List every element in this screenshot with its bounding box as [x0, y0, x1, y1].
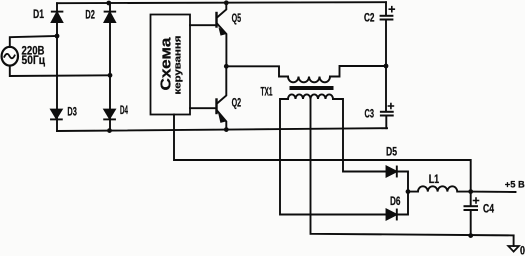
capacitor C3 [381, 66, 393, 128]
svg-text:Q2: Q2 [232, 96, 242, 110]
svg-text:D4: D4 [120, 103, 128, 117]
diode D6 [387, 210, 397, 220]
wire secondary center tap to ground line [311, 99, 514, 235]
node junction dot L1 output [468, 189, 473, 194]
label C4 [483, 204, 494, 216]
polarity plus C3 [388, 104, 393, 109]
wire left bridge branch [56, 3, 58, 131]
label D6 [390, 194, 401, 208]
diode D5 [387, 167, 397, 177]
label Q5 [232, 11, 242, 25]
node junction dot Q5 collector top rail [224, 0, 229, 5]
polarity plus C4 [474, 198, 479, 203]
inductor L1 [408, 186, 471, 191]
svg-text:C2: C2 [364, 13, 375, 25]
svg-text:D3: D3 [67, 104, 77, 118]
transformer TX1 secondary winding [288, 94, 333, 99]
wire top rail [57, 2, 386, 3]
transistor Q5 [217, 3, 227, 66]
wire output to +5 В [471, 191, 516, 193]
label D5 [386, 145, 397, 159]
svg-text:TX1: TX1 [261, 85, 273, 99]
node junction dot AC bottom / bridge right [108, 73, 113, 78]
svg-text:0: 0 [520, 246, 525, 256]
svg-text:D1: D1 [33, 7, 44, 21]
label D3 [67, 104, 77, 118]
svg-text:D2: D2 [85, 8, 95, 22]
svg-text:C4: C4 [483, 204, 494, 216]
wire control block to Q5 base [190, 24, 216, 26]
AC source G1 circle with sine [2, 47, 18, 66]
node junction dot C2 C3 midpoint primary [384, 64, 389, 69]
wire right bridge branch [109, 3, 111, 131]
svg-text:Q5: Q5 [232, 11, 242, 25]
svg-text:C3: C3 [365, 109, 375, 121]
polarity plus C2 [389, 7, 394, 12]
node junction dot D5 D6 L1 input [406, 189, 411, 194]
node junction dot C4 ground line [468, 233, 473, 238]
label TX1 [261, 85, 273, 99]
svg-text:D6: D6 [390, 194, 401, 208]
label D4 [120, 103, 128, 117]
wire feedback from control block to output node [174, 115, 471, 192]
label 0 [520, 246, 525, 256]
label D1 [33, 7, 44, 21]
wire transformer primary right lead [330, 66, 386, 77]
node junction dot Q2 emitter bottom rail [224, 127, 229, 132]
wire D5 cathode to L1 node [397, 172, 408, 192]
wire bottom rail [57, 128, 387, 131]
wire secondary left lead to D6 [280, 99, 387, 215]
control block U1 Схема керування [151, 15, 191, 115]
diode D3 [51, 110, 62, 120]
diode D4 [104, 110, 115, 120]
label Схема керування [159, 36, 184, 95]
wire AC source bottom lead to right bridge node [10, 66, 110, 77]
label +5 В [505, 180, 525, 191]
diode D1 [52, 12, 63, 22]
capacitor C2 [381, 2, 393, 66]
label C3 [365, 109, 375, 121]
label L1 [429, 172, 440, 186]
node junction dot AC top / bridge left [55, 34, 60, 39]
svg-text:D5: D5 [386, 145, 397, 159]
transformer TX1 primary winding [288, 77, 330, 83]
transistor Q2 [217, 66, 227, 129]
wire transformer primary left lead [226, 66, 288, 76]
svg-text:керування: керування [173, 36, 184, 95]
wire secondary right lead to D5 [333, 99, 387, 172]
svg-text:50Гц: 50Гц [22, 53, 46, 67]
wire ground line drop [513, 235, 515, 246]
svg-text:+5 В: +5 В [505, 180, 525, 191]
svg-text:L1: L1 [429, 172, 440, 186]
node junction dot D4 bottom rail [107, 128, 112, 133]
label Q2 [232, 96, 242, 110]
wire AC source top lead to left bridge node [10, 36, 57, 47]
node junction dot D2 top rail [106, 1, 111, 6]
label 220В 50Гц [22, 43, 46, 66]
wire control block to Q2 base [190, 107, 216, 109]
label D2 [85, 8, 95, 22]
ground symbol [508, 246, 519, 252]
node junction dot Q5-Q2 midpoint [224, 64, 229, 69]
diode D2 [105, 12, 116, 22]
capacitor C4 [465, 192, 478, 236]
label C2 [364, 13, 375, 25]
wire D6 cathode to L1 node [397, 192, 408, 215]
transformer TX1 core [290, 86, 334, 90]
